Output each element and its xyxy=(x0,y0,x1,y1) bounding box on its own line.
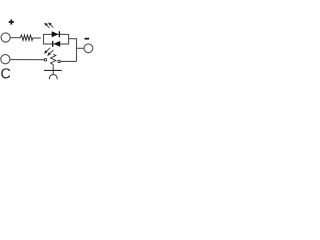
dome arc xyxy=(49,75,57,80)
LED D2 (bottom, pointing left) xyxy=(53,41,61,47)
LED D1 emission arrows xyxy=(45,23,53,28)
wire xyxy=(10,59,44,61)
label C xyxy=(1,68,10,78)
vertical wire xyxy=(76,39,78,62)
plus sign xyxy=(9,19,14,24)
wire xyxy=(10,37,20,39)
LED D2 emission arrows xyxy=(45,48,54,56)
LED package box xyxy=(44,34,69,44)
bar electrode xyxy=(44,69,62,71)
LED D1 (top, pointing right) xyxy=(52,31,60,37)
wire to minus terminal xyxy=(77,47,85,49)
wire xyxy=(33,37,41,39)
junction circle J2 xyxy=(58,60,61,63)
photoresistor LDR zigzag xyxy=(51,54,56,64)
terminal T2 (-) circle xyxy=(84,44,93,53)
wire stub LDR to bar xyxy=(52,65,54,71)
junction circle J1 xyxy=(44,59,47,62)
wire from box right xyxy=(69,38,77,40)
minus sign xyxy=(85,38,90,40)
resistor R1 xyxy=(20,35,33,40)
stub bar to dome xyxy=(52,70,54,74)
terminal C circle xyxy=(1,55,10,64)
terminal T1 (+) circle xyxy=(1,33,10,42)
wire xyxy=(60,60,76,62)
